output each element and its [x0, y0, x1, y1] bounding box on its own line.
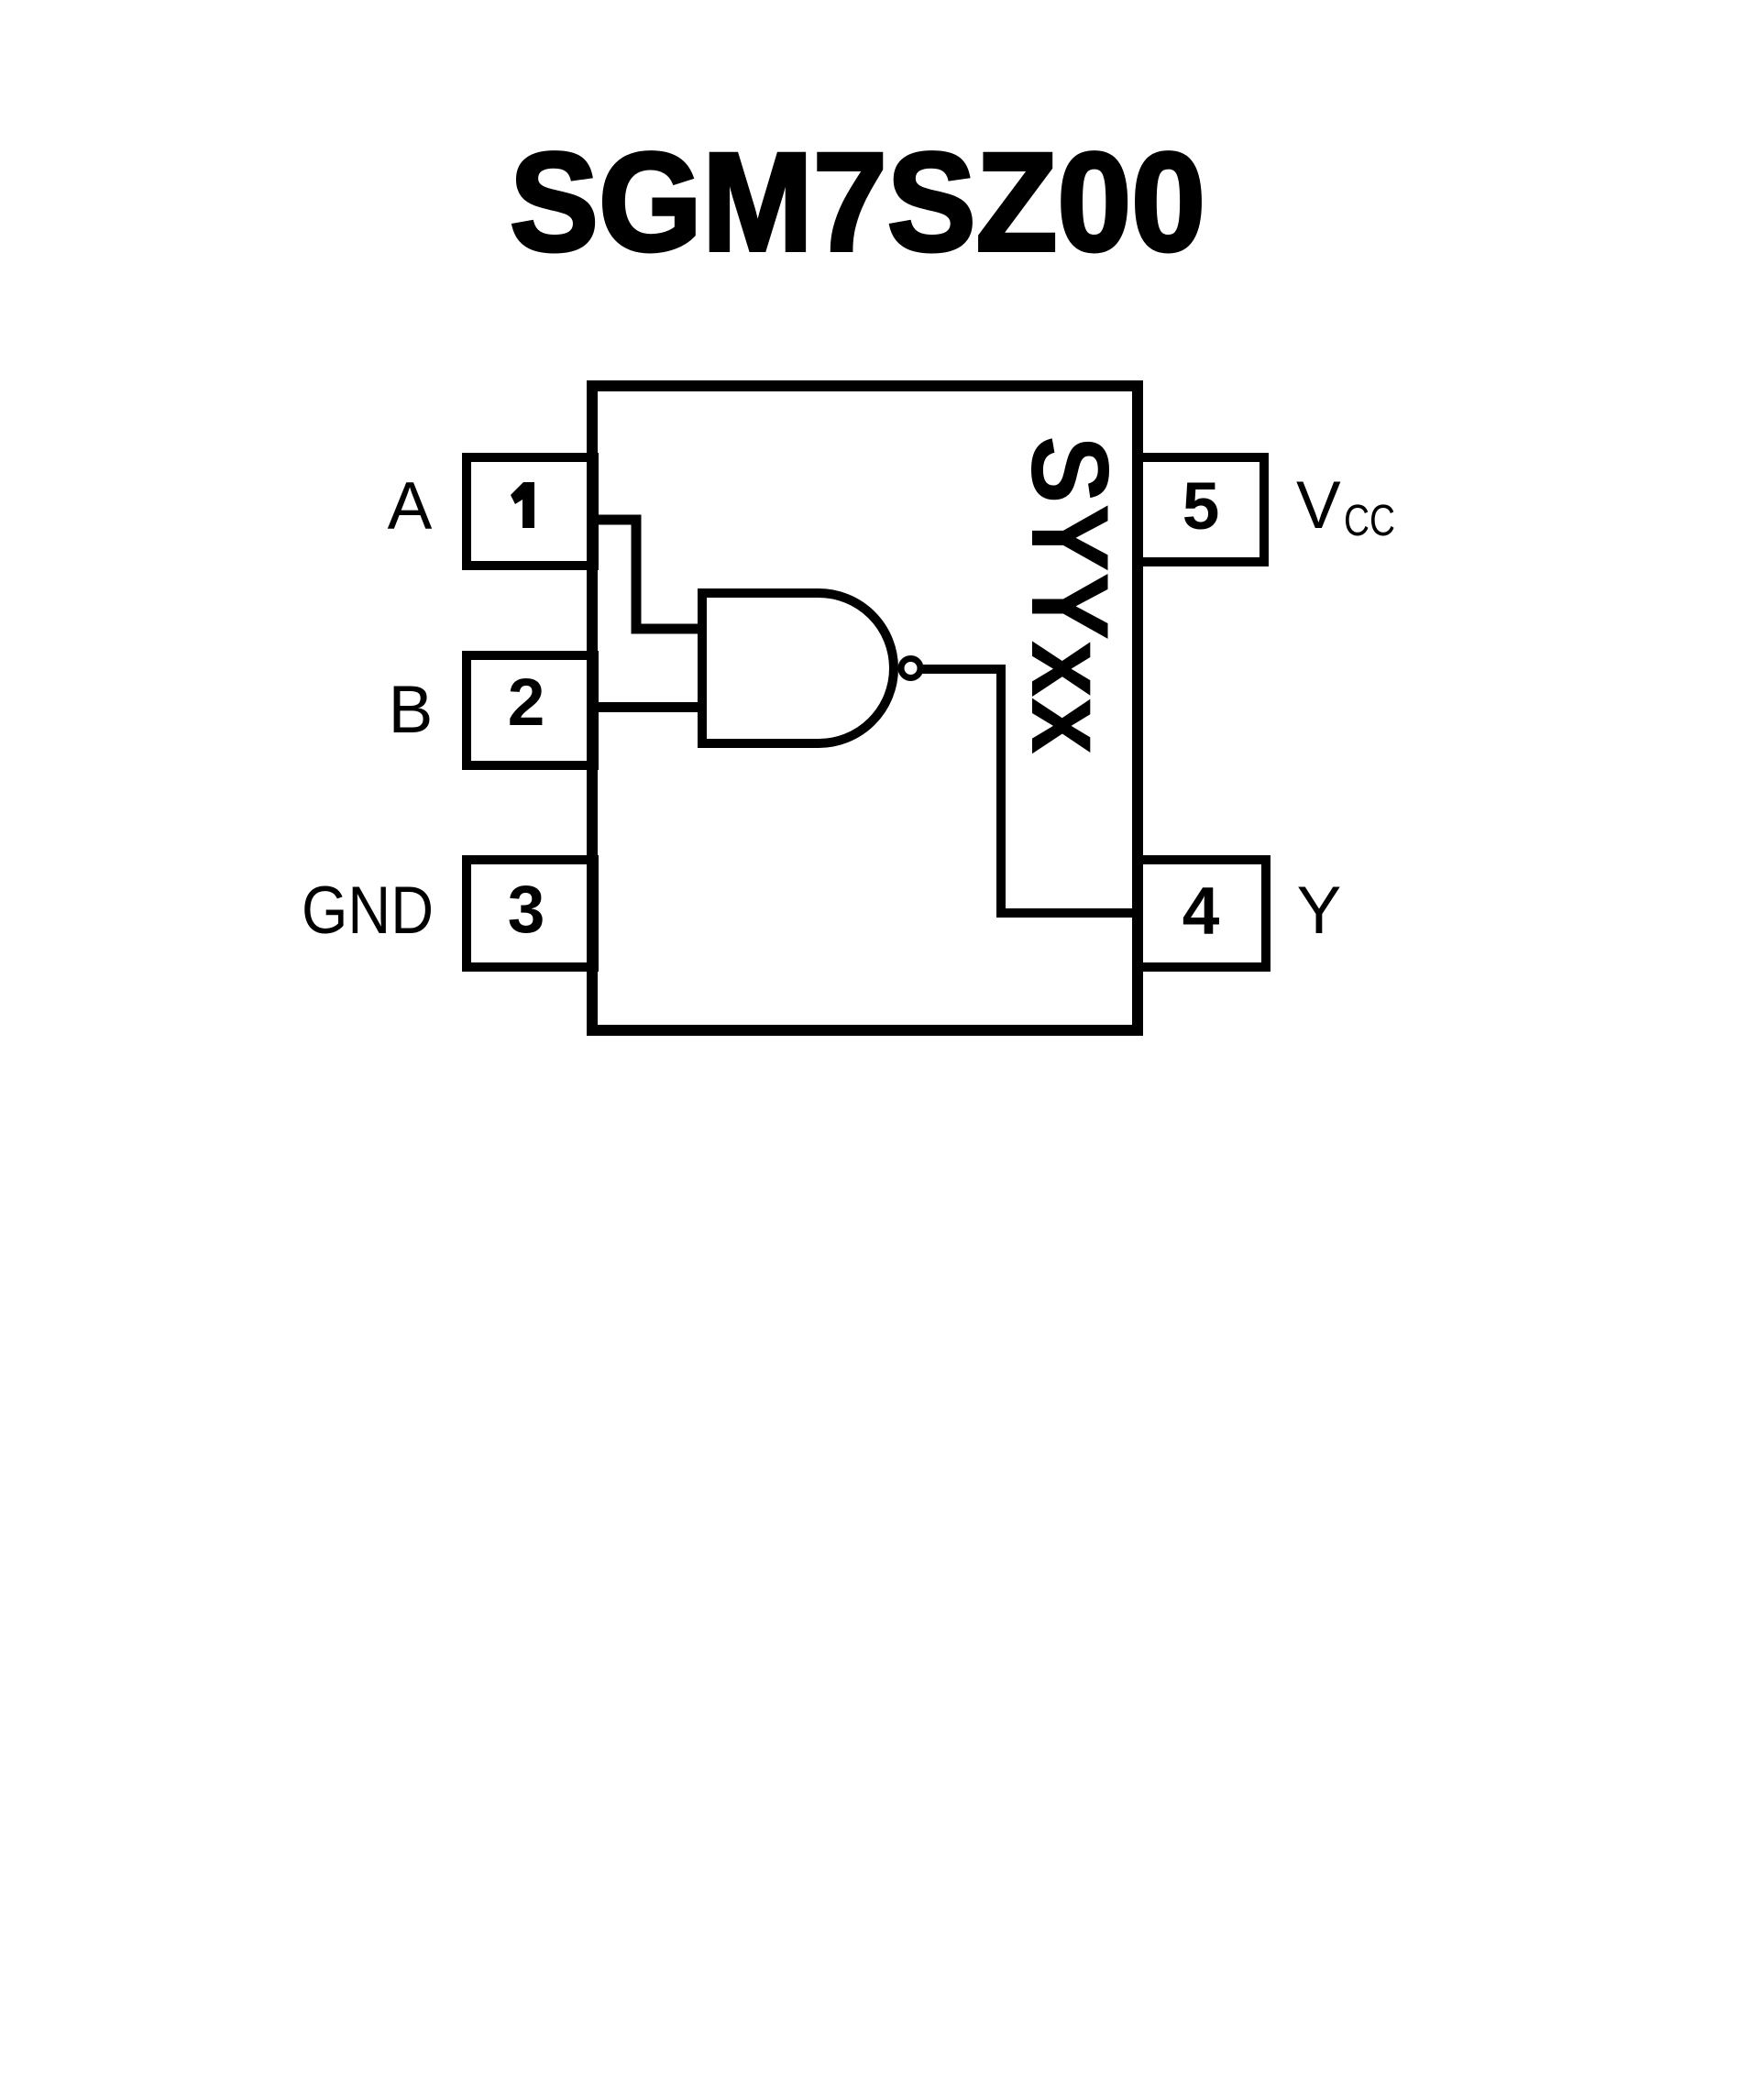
svg-text:2: 2 — [508, 665, 545, 740]
wire pin 2 to NAND input B — [594, 702, 702, 712]
svg-text:3: 3 — [508, 873, 545, 947]
svg-text:GND: GND — [302, 874, 434, 948]
NAND gate G1 — [702, 593, 894, 743]
pin 5 box — [1138, 457, 1264, 562]
wire NAND output to pin 4 — [922, 669, 1138, 913]
pin 2 box — [467, 655, 594, 765]
pin 4 box — [1138, 860, 1266, 967]
svg-text:A: A — [388, 469, 433, 544]
svg-text:SGM7SZ00: SGM7SZ00 — [510, 124, 1205, 280]
svg-text:CC: CC — [1344, 497, 1395, 545]
svg-text:5: 5 — [1182, 469, 1220, 544]
wire pin 1 to NAND input A — [594, 520, 702, 629]
pin 1 box — [467, 457, 594, 566]
svg-text:Y: Y — [1297, 874, 1342, 948]
svg-text:V: V — [1296, 468, 1341, 543]
pin 3 box — [467, 860, 594, 967]
svg-text:4: 4 — [1182, 874, 1220, 949]
svg-text:SYYxx: SYYxx — [1008, 435, 1131, 754]
svg-text:B: B — [389, 673, 434, 747]
IC body U1 — [592, 386, 1138, 1030]
pin 1 number — [511, 482, 534, 528]
NAND output bubble — [901, 659, 920, 678]
